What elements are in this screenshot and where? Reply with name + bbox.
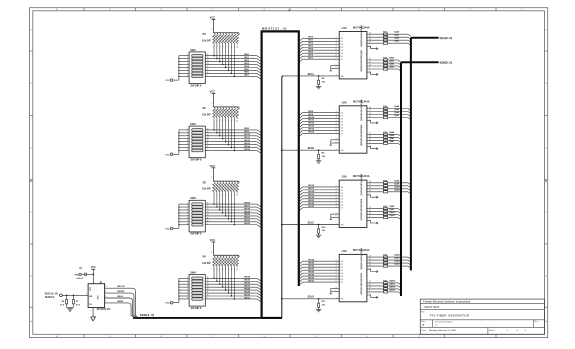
wire SDLB tap	[281, 149, 283, 151]
switch SW4 body	[189, 275, 205, 307]
wire SDLC tap	[281, 224, 283, 226]
svg-text:D5: D5	[341, 202, 343, 204]
svg-text:11: 11	[369, 210, 371, 212]
svg-text:4: 4	[187, 211, 188, 213]
svg-text:U1A: U1A	[342, 26, 347, 30]
svg-text:MD31: MD31	[308, 280, 315, 282]
svg-text:6: 6	[187, 143, 188, 145]
svg-text:1: 1	[336, 223, 337, 225]
power VCC stub (SW2 common)	[170, 153, 173, 156]
svg-text:MD26: MD26	[244, 283, 251, 285]
svg-text:6: 6	[187, 69, 188, 71]
svg-text:D3: D3	[341, 47, 343, 49]
svg-text:IQA2: IQA2	[394, 37, 400, 40]
bus entries U2A group A into IQA bus	[408, 109, 411, 111]
connector VSS stub	[79, 273, 82, 276]
svg-text:16: 16	[369, 113, 371, 115]
IC U2A body	[339, 106, 367, 153]
wire VCC to resistor network R4	[212, 242, 214, 255]
svg-text:QB0QB1QB2QB3QB4: QB0QB1QB2QB3QB4	[360, 198, 363, 220]
svg-text:10: 10	[207, 295, 209, 297]
svg-text:9: 9	[336, 213, 337, 215]
svg-text:9: 9	[369, 216, 370, 218]
svg-text:4: 4	[187, 286, 188, 288]
svg-text:7: 7	[187, 146, 188, 148]
svg-text:16: 16	[369, 187, 371, 189]
svg-text:VCC: VCC	[90, 286, 92, 291]
switch SW3 output wires to bus	[205, 203, 257, 205]
resistor network R2 common bar	[213, 106, 238, 108]
svg-text:MD3: MD3	[244, 63, 249, 65]
svg-text:5: 5	[187, 66, 188, 68]
U2A output wires group B with series resistors	[367, 133, 384, 135]
resistor R6 termination	[66, 295, 68, 299]
svg-text:15: 15	[369, 264, 371, 266]
svg-text:16: 16	[207, 54, 209, 56]
ground (SDLB pulldown)	[316, 160, 321, 162]
U3A output wires group B with series resistors	[367, 208, 384, 210]
svg-text:QA0QA1QA2QA3QA4: QA0QA1QA2QA3QA4	[360, 247, 363, 269]
svg-text:10k: 10k	[322, 305, 326, 307]
svg-text:5: 5	[336, 269, 337, 271]
svg-text:12: 12	[207, 140, 209, 142]
svg-text:10: 10	[236, 195, 238, 197]
svg-text:IQA[9..0]: IQA[9..0]	[440, 36, 452, 40]
wire SDLD tap	[281, 298, 283, 300]
svg-text:R11: R11	[322, 301, 327, 303]
power VCC stub (SW1 common)	[170, 79, 173, 82]
svg-text:11: 11	[369, 136, 371, 138]
svg-text:T4X FIBER GENERATOR: T4X FIBER GENERATOR	[429, 314, 470, 318]
svg-text:1: 1	[336, 74, 337, 76]
svg-text:F: F	[545, 29, 547, 31]
wire SERCLK_IN to U5	[62, 294, 88, 296]
svg-text:9: 9	[336, 138, 337, 140]
svg-text:D4: D4	[341, 199, 343, 201]
svg-text:MD20: MD20	[244, 214, 251, 216]
svg-text:SH: SH	[341, 76, 344, 78]
svg-text:4: 4	[336, 43, 337, 45]
svg-text:D2: D2	[341, 193, 343, 195]
wire SDL vertical line	[282, 76, 284, 318]
svg-text:VCC: VCC	[210, 90, 216, 94]
svg-text:12: 12	[369, 58, 371, 60]
svg-text:9: 9	[207, 297, 208, 299]
svg-text:MR: MR	[89, 296, 93, 298]
svg-text:MD6: MD6	[244, 72, 249, 74]
switch SW2 body	[189, 126, 205, 158]
svg-text:SRDAT: SRDAT	[117, 290, 125, 293]
bus entries U3A group B into IQB bus	[398, 209, 401, 211]
resistor network R2 output drops with junctions	[213, 119, 215, 130]
svg-text:MD1: MD1	[308, 39, 313, 41]
svg-text:MD27: MD27	[244, 285, 251, 287]
svg-text:SW3: SW3	[190, 197, 196, 200]
bus MD bottom horizontal segment	[262, 317, 282, 319]
ground (U5)	[91, 317, 96, 321]
svg-text:SW DIP-8: SW DIP-8	[191, 307, 202, 310]
svg-text:6: 6	[336, 216, 337, 218]
svg-text:SW DIP-8: SW DIP-8	[191, 159, 202, 162]
svg-text:MD10: MD10	[308, 117, 315, 119]
svg-text:MD29: MD29	[308, 274, 315, 276]
svg-text:IQB13: IQB13	[389, 283, 396, 285]
svg-text:15: 15	[207, 280, 209, 282]
resistor R11 pulldown on SDLD	[318, 299, 320, 303]
svg-text:MD6: MD6	[308, 54, 313, 56]
junction SDLC pulldown	[318, 224, 320, 226]
svg-text:Sheet: Sheet	[489, 329, 495, 332]
svg-text:R4: R4	[203, 256, 207, 259]
svg-text:Monday, February 12, 2001: Monday, February 12, 2001	[429, 329, 456, 332]
svg-text:IQA1: IQA1	[394, 34, 400, 37]
svg-text:12: 12	[369, 281, 371, 283]
svg-text:OSC: OSC	[98, 295, 100, 300]
svg-text:9: 9	[369, 142, 370, 144]
resistor network R3 common bar	[213, 180, 238, 182]
border zone ticks left/right	[30, 50, 33, 52]
svg-text:MD4: MD4	[244, 65, 249, 68]
svg-text:11: 11	[207, 69, 209, 71]
svg-text:R7: R7	[76, 301, 79, 303]
svg-text:15: 15	[207, 206, 209, 208]
resistor network R1 output drops with junctions	[213, 45, 215, 56]
wire VCC to resistor network R1	[212, 19, 214, 32]
svg-text:IQA0: IQA0	[394, 31, 400, 34]
svg-text:IQB4: IQB4	[389, 131, 395, 134]
svg-text:MD23: MD23	[244, 223, 251, 225]
bus MD[31..0] left vertical segment	[261, 31, 263, 318]
svg-text:6: 6	[336, 141, 337, 143]
svg-text:11: 11	[207, 217, 209, 219]
svg-text:SW1: SW1	[190, 49, 196, 52]
U1A clock tie stubs	[331, 65, 339, 67]
svg-text:MD18: MD18	[244, 208, 251, 210]
svg-text:MD8: MD8	[308, 111, 313, 113]
svg-text:2: 2	[336, 37, 337, 39]
svg-text:15: 15	[369, 116, 371, 118]
svg-text:D4: D4	[341, 273, 343, 275]
svg-text:10: 10	[236, 269, 238, 271]
svg-text:D0: D0	[341, 187, 343, 189]
svg-text:4: 4	[187, 63, 188, 65]
svg-text:IQA9: IQA9	[394, 182, 400, 185]
svg-text:B: B	[30, 276, 32, 278]
svg-text:1: 1	[187, 203, 188, 205]
svg-text:D2: D2	[341, 118, 343, 120]
svg-text:11: 11	[207, 292, 209, 294]
svg-text:D7: D7	[341, 133, 343, 135]
svg-text:12: 12	[207, 66, 209, 68]
svg-text:9: 9	[336, 206, 337, 208]
svg-text:SW2: SW2	[190, 123, 196, 126]
svg-text:IQB1: IQB1	[389, 61, 395, 63]
svg-text:MD11: MD11	[308, 120, 314, 122]
svg-text:R8: R8	[322, 78, 325, 80]
svg-text:2: 2	[336, 260, 337, 262]
svg-text:D3: D3	[341, 196, 343, 198]
svg-text:VCC: VCC	[91, 266, 96, 269]
svg-text:Title: Title	[421, 311, 426, 314]
resistor network R4 output drops with junctions	[213, 267, 215, 278]
svg-text:A: A	[30, 320, 32, 323]
svg-text:MD19: MD19	[308, 194, 315, 196]
svg-text:2: 2	[336, 111, 337, 113]
svg-text:7: 7	[336, 52, 337, 54]
svg-text:MD11: MD11	[244, 137, 250, 139]
bus entries group 3 into MD bus	[257, 204, 261, 207]
svg-text:MD12: MD12	[308, 123, 315, 125]
junction SERCLK node 2	[73, 295, 75, 297]
svg-text:BT04HCL11F: BT04HCL11F	[97, 308, 112, 311]
svg-text:IQB12: IQB12	[389, 280, 396, 282]
svg-text:MD17: MD17	[308, 188, 315, 190]
svg-text:D6: D6	[341, 279, 343, 281]
svg-text:VCC: VCC	[210, 238, 216, 242]
svg-text:QA0QA1QA2QA3QA4: QA0QA1QA2QA3QA4	[360, 173, 363, 195]
svg-text:9: 9	[207, 75, 208, 77]
svg-text:D7: D7	[341, 282, 343, 284]
svg-text:4: 4	[336, 266, 337, 268]
svg-text:D6: D6	[341, 205, 343, 207]
svg-text:QB0QB1QB2QB3QB4: QB0QB1QB2QB3QB4	[360, 272, 363, 294]
svg-text:MD21: MD21	[244, 217, 251, 219]
svg-text:2: 2	[187, 280, 188, 282]
svg-text:D5: D5	[341, 53, 343, 55]
svg-text:12: 12	[207, 289, 209, 291]
svg-text:SW4: SW4	[190, 271, 196, 274]
wire to capacitor C1	[86, 273, 93, 275]
svg-text:MD16: MD16	[244, 202, 251, 204]
svg-text:10k: 10k	[322, 230, 326, 232]
switch SW2 elements	[192, 129, 203, 132]
svg-text:61.9: 61.9	[76, 304, 81, 306]
resistor network R1 common bar	[213, 32, 238, 34]
bus exits MD bus to U2A	[300, 113, 303, 115]
svg-text:D: D	[30, 148, 32, 150]
bus exits MD bus to U1A	[300, 38, 303, 40]
svg-text:MD17: MD17	[244, 205, 251, 207]
svg-text:16: 16	[207, 277, 209, 279]
svg-text:IQA4: IQA4	[394, 105, 400, 108]
svg-text:SDLD: SDLD	[308, 297, 315, 299]
U2A clock tie stubs	[331, 139, 339, 141]
svg-text:3: 3	[336, 263, 337, 265]
wire termination join	[67, 307, 74, 309]
svg-text:MD7: MD7	[244, 75, 249, 77]
svg-text:5: 5	[336, 120, 337, 122]
svg-text:10k SIP: 10k SIP	[202, 262, 211, 265]
svg-text:10: 10	[207, 220, 209, 222]
power VCC stub (SW3 common)	[170, 227, 173, 230]
svg-text:7: 7	[187, 220, 188, 222]
svg-text:MD9: MD9	[308, 114, 313, 116]
svg-text:R9: R9	[322, 153, 325, 155]
svg-text:13: 13	[207, 63, 209, 65]
bus entries U3A group A into IQA bus	[408, 183, 411, 185]
svg-text:11: 11	[369, 61, 371, 63]
svg-text:B: B	[423, 324, 425, 327]
wire SW4 common to VCC	[178, 278, 180, 302]
svg-text:D4: D4	[341, 124, 343, 126]
svg-text:7: 7	[336, 126, 337, 128]
bus SER[3..0] horizontal	[133, 317, 282, 319]
svg-text:14: 14	[207, 209, 209, 211]
junction SDLD pulldown	[318, 298, 320, 300]
svg-text:IQB6: IQB6	[389, 138, 395, 140]
svg-text:MD1: MD1	[244, 57, 249, 59]
svg-text:D7: D7	[341, 208, 343, 210]
IC U3A body	[339, 180, 367, 227]
ground (SDLA pulldown)	[316, 86, 321, 88]
svg-text:Date:: Date:	[421, 329, 426, 332]
bus entries U2A group B into IQB bus	[398, 134, 401, 136]
svg-text:MD19: MD19	[244, 211, 251, 213]
svg-text:9: 9	[336, 64, 337, 66]
svg-text:10k SIP: 10k SIP	[202, 188, 211, 191]
resistor network R4 elements	[213, 255, 216, 267]
svg-text:D3: D3	[341, 121, 343, 123]
U1A output wires group A with series resistors	[367, 33, 384, 35]
svg-text:18: 18	[369, 33, 371, 35]
svg-text:9: 9	[369, 290, 370, 292]
svg-text:1: 1	[211, 251, 212, 253]
svg-text:9: 9	[336, 58, 337, 60]
svg-text:MD2: MD2	[244, 60, 249, 62]
svg-text:3: 3	[187, 283, 188, 285]
svg-text:E: E	[30, 83, 32, 85]
bus entries U4A group A into IQA bus	[408, 257, 411, 259]
bus exits MD bus to U4A	[300, 261, 303, 263]
svg-text:16: 16	[369, 39, 371, 41]
svg-text:MD18: MD18	[308, 191, 315, 193]
input wires to U1A	[303, 37, 340, 39]
svg-text:3: 3	[336, 114, 337, 116]
svg-text:VCC: VCC	[165, 80, 170, 82]
svg-text:QB0QB1QB2QB3QB4: QB0QB1QB2QB3QB4	[360, 124, 363, 146]
svg-text:MD22: MD22	[308, 203, 315, 205]
svg-text:IQA5: IQA5	[394, 108, 400, 111]
resistor network R4 common bar	[213, 254, 238, 256]
switch SW4 elements	[192, 277, 203, 280]
svg-text:5: 5	[187, 140, 188, 142]
svg-text:9: 9	[369, 67, 370, 69]
svg-text:11: 11	[369, 284, 371, 286]
svg-text:MD30: MD30	[244, 294, 251, 296]
svg-text:MD5: MD5	[308, 51, 313, 53]
svg-text:MD15: MD15	[244, 149, 251, 151]
svg-text:9: 9	[336, 281, 337, 283]
svg-text:3: 3	[336, 40, 337, 42]
switch SW3 body	[189, 200, 205, 232]
input wires to U2A	[303, 112, 340, 114]
svg-text:MDAT[31..0]: MDAT[31..0]	[262, 27, 287, 31]
svg-text:INPUT MUX: INPUT MUX	[425, 305, 440, 309]
title block frame	[420, 299, 544, 334]
svg-text:IQB15: IQB15	[389, 289, 396, 291]
svg-text:13: 13	[207, 211, 209, 213]
svg-text:MD12: MD12	[244, 140, 251, 142]
ground (SDLD pulldown)	[316, 308, 321, 310]
svg-text:0.47uF: 0.47uF	[76, 277, 83, 280]
U1A output wires group B with series resistors	[367, 59, 384, 61]
U3A output wires group A with series resistors	[367, 182, 384, 184]
svg-text:8: 8	[187, 149, 188, 151]
bus entries U4A group B into IQB bus	[398, 283, 401, 285]
svg-text:D0: D0	[341, 261, 343, 263]
svg-text:IQB10: IQB10	[389, 212, 396, 214]
svg-text:2: 2	[187, 57, 188, 59]
svg-text:QB0QB1QB2QB3QB4: QB0QB1QB2QB3QB4	[360, 50, 363, 72]
svg-text:MD27: MD27	[308, 268, 315, 270]
svg-text:1: 1	[336, 297, 337, 299]
svg-text:8: 8	[336, 129, 337, 131]
svg-text:10k SIP: 10k SIP	[202, 114, 211, 117]
svg-text:9: 9	[207, 149, 208, 151]
svg-text:15: 15	[369, 42, 371, 44]
svg-text:4: 4	[336, 191, 337, 193]
svg-text:13: 13	[207, 286, 209, 288]
svg-text:D1: D1	[341, 41, 343, 43]
svg-text:VCC: VCC	[165, 229, 170, 231]
switch SW2 output wires to bus	[205, 129, 257, 131]
svg-text:IQB7: IQB7	[389, 141, 395, 143]
title block row lines	[420, 302, 544, 304]
wire VCC to resistor network R2	[212, 94, 214, 107]
resistor R10 pulldown on SDLC	[318, 225, 320, 229]
svg-text:2: 2	[336, 185, 337, 187]
svg-text:16: 16	[207, 128, 209, 130]
svg-text:18: 18	[369, 255, 371, 257]
svg-text:IQB11: IQB11	[389, 215, 396, 217]
svg-text:18: 18	[369, 107, 371, 109]
junction VCC bypass	[93, 274, 95, 276]
svg-text:MD0: MD0	[244, 54, 249, 56]
svg-text:MD16: MD16	[308, 185, 315, 187]
bus IQA[15..0]	[411, 38, 439, 271]
U4A output wires group A with series resistors	[367, 256, 384, 258]
svg-text:SERCLK_IN: SERCLK_IN	[45, 294, 58, 296]
svg-text:D5: D5	[341, 127, 343, 129]
svg-text:8: 8	[336, 55, 337, 57]
svg-text:7: 7	[187, 295, 188, 297]
svg-text:6: 6	[336, 67, 337, 69]
svg-text:D6: D6	[341, 56, 343, 58]
U2A output wires group A with series resistors	[367, 108, 384, 110]
svg-text:Document Number: Document Number	[435, 320, 453, 323]
svg-text:MD15: MD15	[308, 132, 315, 134]
svg-text:8: 8	[187, 75, 188, 77]
svg-text:D2: D2	[341, 44, 343, 46]
svg-text:SW DIP-8: SW DIP-8	[191, 233, 202, 236]
svg-text:1: 1	[86, 294, 87, 296]
bus entries group 2 into MD bus	[257, 130, 261, 133]
svg-text:R2: R2	[203, 107, 207, 110]
svg-text:MD20: MD20	[308, 197, 315, 199]
svg-text:MD30: MD30	[308, 277, 315, 279]
svg-text:SERCLK: SERCLK	[45, 297, 55, 299]
switch SW1 elements	[192, 54, 203, 57]
svg-text:10k: 10k	[322, 156, 326, 158]
input wires to U3A	[303, 186, 340, 188]
svg-text:17: 17	[369, 110, 371, 112]
svg-text:1: 1	[507, 330, 509, 332]
svg-text:MD23: MD23	[308, 206, 315, 208]
svg-text:R6: R6	[62, 301, 65, 303]
svg-text:15: 15	[207, 57, 209, 59]
resistor network R1 elements	[213, 33, 216, 45]
svg-text:QA0QA1QA2QA3QA4: QA0QA1QA2QA3QA4	[360, 99, 363, 121]
